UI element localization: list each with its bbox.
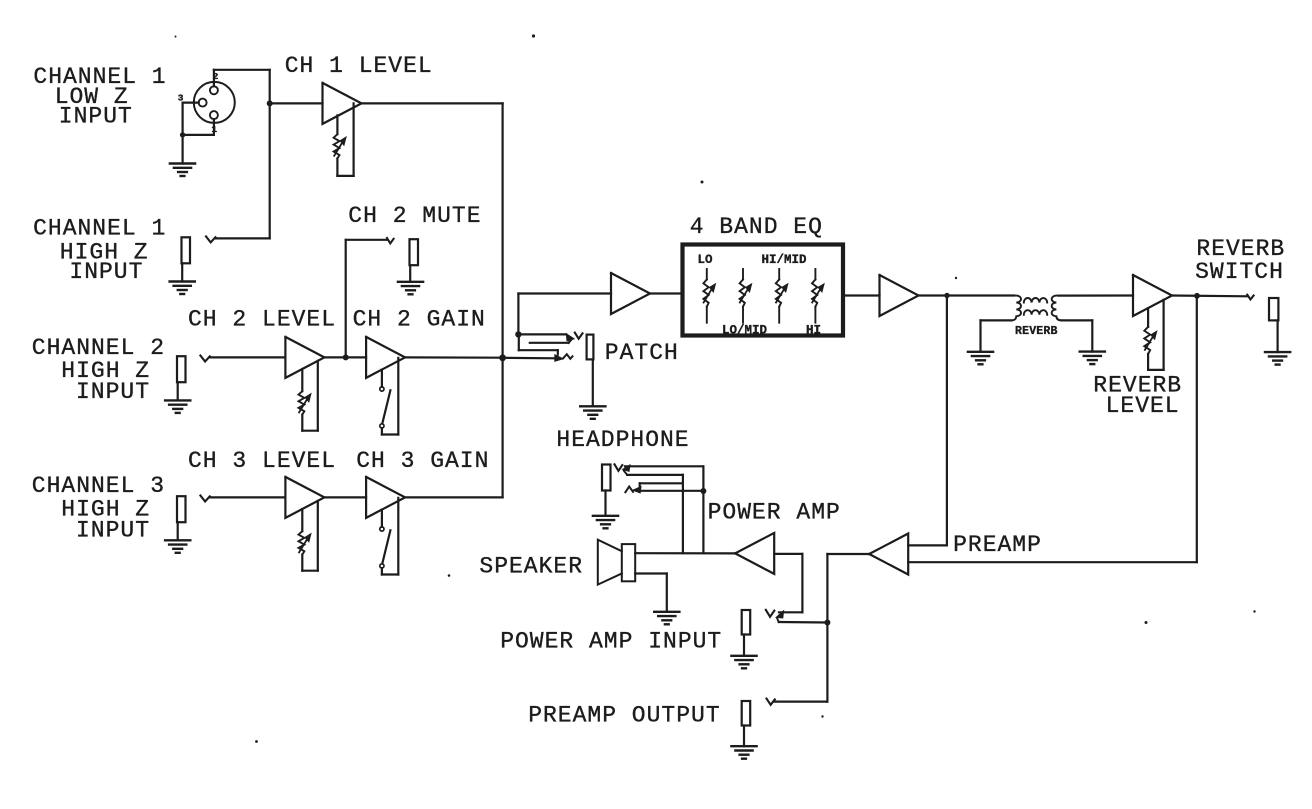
svg-text:POWER AMP: POWER AMP [708, 500, 841, 526]
svg-text:4 BAND EQ: 4 BAND EQ [690, 214, 823, 240]
svg-text:HEADPHONE: HEADPHONE [556, 427, 689, 453]
svg-text:CH 1 LEVEL: CH 1 LEVEL [285, 53, 433, 79]
svg-text:LEVEL: LEVEL [1106, 393, 1180, 419]
svg-text:1: 1 [211, 124, 217, 135]
svg-text:PREAMP: PREAMP [953, 532, 1042, 558]
svg-text:HI/MID: HI/MID [762, 253, 808, 267]
svg-text:POWER AMP INPUT: POWER AMP INPUT [500, 628, 722, 654]
svg-text:2: 2 [213, 71, 219, 82]
svg-text:CHANNEL 1: CHANNEL 1 [33, 215, 166, 241]
svg-text:INPUT: INPUT [69, 259, 143, 285]
svg-text:3: 3 [178, 92, 184, 103]
svg-text:CHANNEL 3: CHANNEL 3 [32, 473, 165, 499]
svg-text:CH 3 LEVEL: CH 3 LEVEL [188, 448, 336, 474]
svg-text:LO: LO [698, 253, 714, 267]
svg-text:INPUT: INPUT [76, 379, 150, 405]
svg-text:CH 2 LEVEL: CH 2 LEVEL [188, 307, 336, 333]
svg-text:REVERB: REVERB [1015, 325, 1058, 338]
svg-text:CH 2 MUTE: CH 2 MUTE [348, 203, 481, 229]
svg-text:HI: HI [806, 324, 821, 338]
svg-text:CH 3 GAIN: CH 3 GAIN [356, 448, 489, 474]
svg-text:LO/MID: LO/MID [722, 324, 768, 338]
svg-text:PREAMP OUTPUT: PREAMP OUTPUT [528, 703, 720, 729]
svg-text:SPEAKER: SPEAKER [479, 554, 583, 580]
svg-text:INPUT: INPUT [59, 104, 133, 130]
svg-text:CH 2 GAIN: CH 2 GAIN [353, 307, 486, 333]
svg-text:SWITCH: SWITCH [1195, 259, 1284, 285]
svg-text:INPUT: INPUT [76, 518, 150, 544]
svg-text:PATCH: PATCH [605, 340, 679, 366]
